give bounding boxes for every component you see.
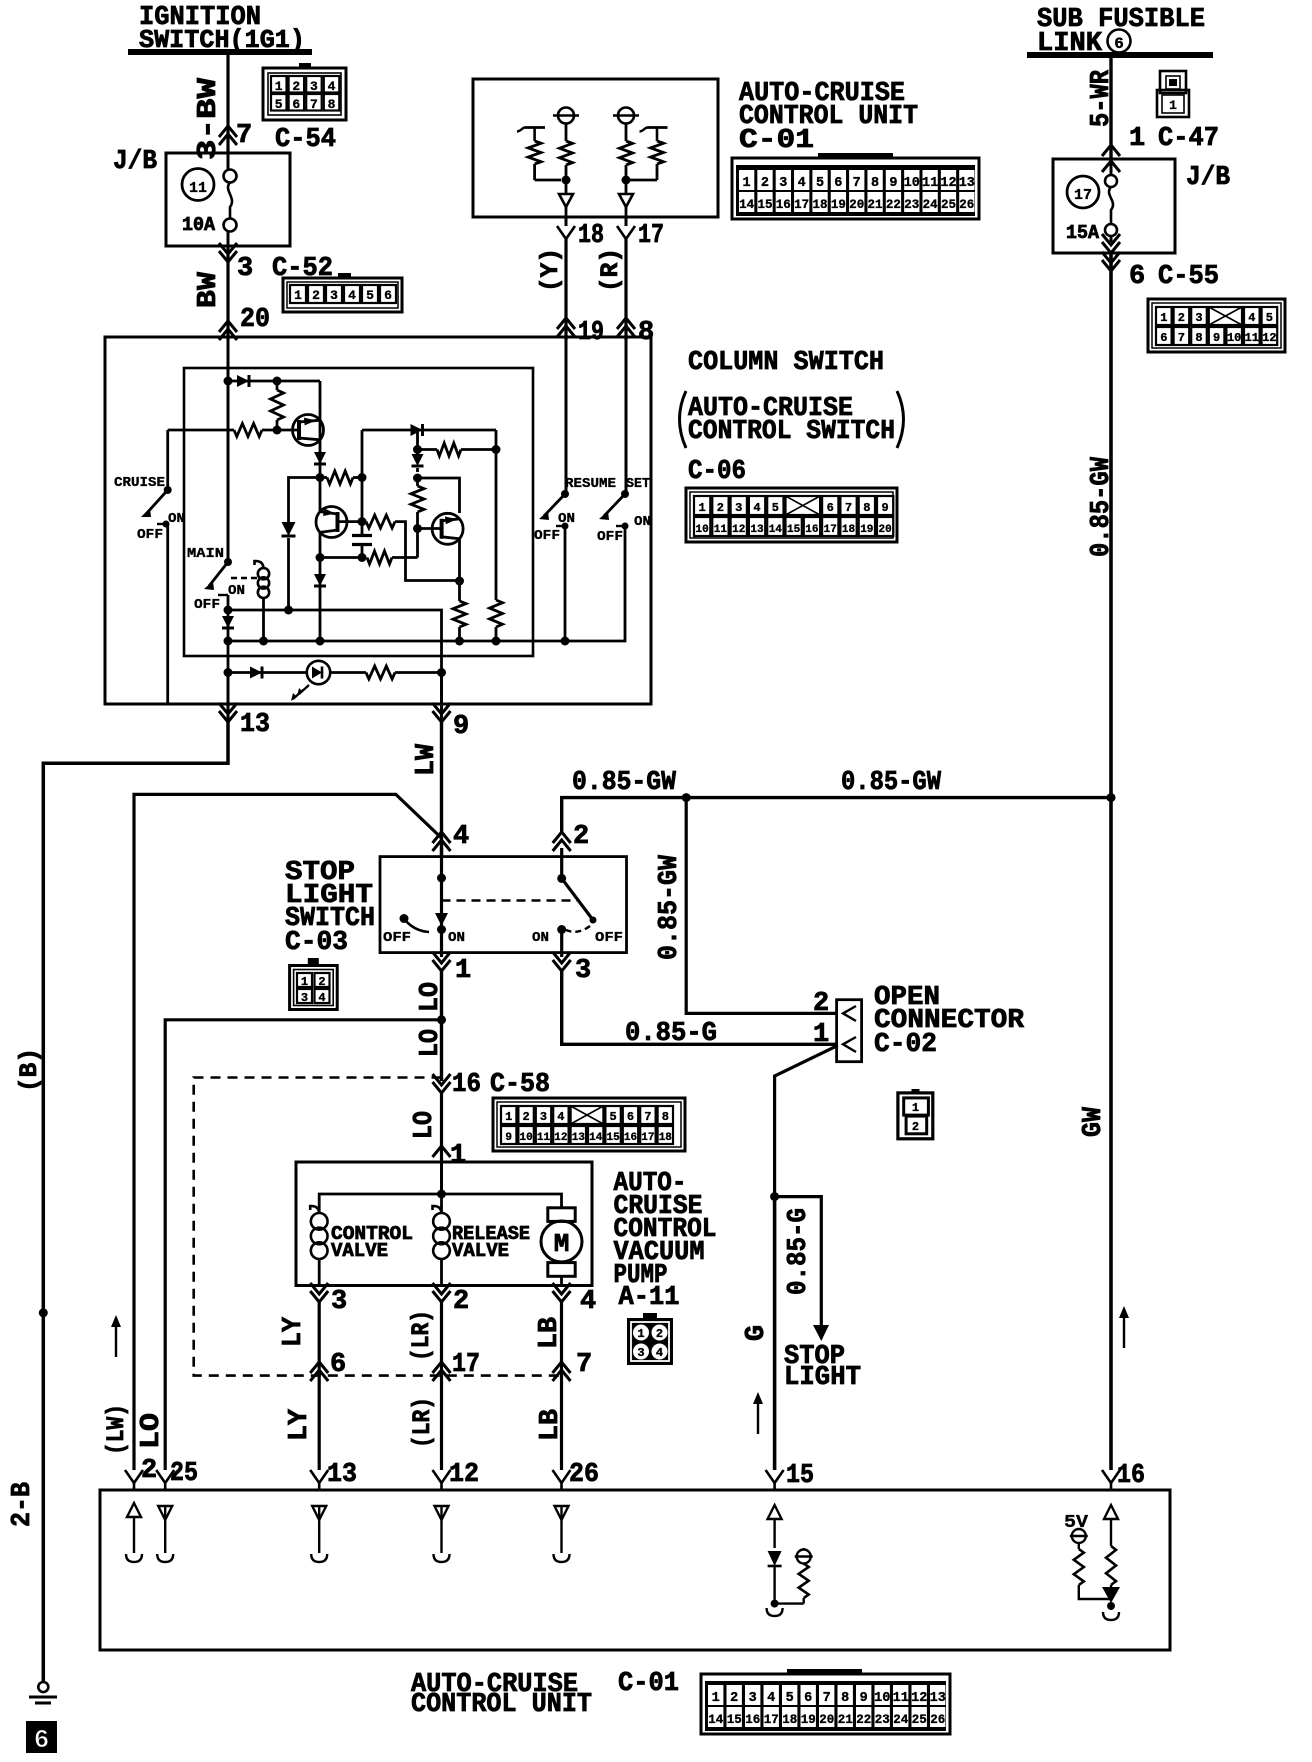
svg-text:4: 4: [453, 822, 469, 852]
capacitor C1: [352, 534, 372, 537]
svg-text:2: 2: [761, 176, 769, 191]
node junction R5 left: [413, 445, 422, 454]
pin 7 chevrons on dashed boundary: [553, 1362, 571, 1373]
connector C-02 icon: [898, 1093, 933, 1139]
open connector pin 1 chevron: [843, 1037, 856, 1052]
svg-text:OFF: OFF: [194, 597, 220, 613]
node junction 0.85-GW branch down: [682, 793, 691, 802]
bottom rail wire inside inner box: [228, 526, 625, 641]
column switch outer box: [105, 337, 651, 704]
svg-text:0.85-GW: 0.85-GW: [655, 854, 685, 960]
svg-text:13: 13: [327, 1460, 357, 1490]
svg-text:0.85-GW: 0.85-GW: [1087, 456, 1117, 557]
diode D4: [411, 424, 423, 436]
pin 13 connector chevrons: [219, 703, 237, 714]
svg-text:1: 1: [450, 1141, 466, 1171]
open connector pin 2 chevron: [843, 1006, 856, 1021]
svg-text:7: 7: [845, 501, 852, 515]
output pin 26 internal arrow: [555, 1506, 569, 1520]
wire T3 emitter down: [458, 538, 461, 601]
svg-text:(Y): (Y): [536, 248, 565, 292]
svg-text:SET: SET: [626, 476, 650, 492]
svg-text:OFF: OFF: [534, 528, 560, 544]
svg-text:3: 3: [237, 254, 253, 284]
svg-text:0.85-GW: 0.85-GW: [572, 768, 677, 798]
wire stub D4 to R5 row: [416, 430, 419, 450]
SET switch wire from pin 8: [625, 340, 628, 494]
svg-text:11: 11: [189, 180, 207, 197]
page marker 6 black box: [26, 1721, 57, 1753]
svg-text:8: 8: [662, 1110, 669, 1124]
svg-text:3: 3: [310, 79, 318, 94]
svg-text:19: 19: [860, 524, 873, 536]
pin 26 Y connector: [553, 1470, 571, 1483]
transistor T1: [293, 415, 324, 446]
svg-text:C-01: C-01: [618, 1669, 679, 1699]
connector C-54 icon: [263, 68, 346, 120]
fuse number 11 circle: [182, 169, 214, 201]
svg-text:26: 26: [569, 1460, 599, 1490]
pin 2 Y connector: [125, 1470, 143, 1483]
wire W610 horizontal: [228, 610, 442, 673]
wire pin9 down from LED row: [440, 673, 443, 726]
svg-text:21: 21: [868, 198, 883, 212]
direction arrow on G wire: [757, 1402, 759, 1434]
svg-text:7: 7: [823, 1691, 831, 1706]
svg-text:16: 16: [745, 1713, 760, 1727]
wire pin13 to ground bus (B): [43, 722, 228, 1683]
svg-text:0.85-G: 0.85-G: [625, 1019, 717, 1049]
pin 3 connector chevrons below switch: [553, 952, 571, 963]
svg-text:A-11: A-11: [619, 1283, 680, 1313]
svg-text:(LR): (LR): [408, 1397, 437, 1448]
svg-text:2: 2: [656, 1327, 663, 1341]
svg-text:2: 2: [522, 1110, 529, 1124]
svg-text:VALVE: VALVE: [452, 1240, 509, 1262]
node junction T3 emitter / R4: [455, 577, 464, 586]
svg-text:17: 17: [452, 1350, 480, 1380]
svg-text:6: 6: [1160, 331, 1167, 345]
svg-text:2: 2: [1178, 311, 1185, 325]
diode D7 below MAIN switch: [222, 616, 234, 628]
svg-text:LO: LO: [410, 1111, 440, 1139]
wire (Y) pin18 to column switch pin 19: [564, 239, 567, 340]
connector C-01 icon (26-pin) top: [732, 158, 979, 219]
diode D6 below T2: [314, 574, 326, 586]
pin 8 connector chevrons: [617, 318, 635, 329]
CRUISE switch branch wire: [166, 430, 169, 490]
node junction rail-MAIN: [224, 637, 233, 646]
svg-text:23: 23: [875, 1713, 890, 1727]
svg-text:1: 1: [275, 79, 283, 94]
svg-text:4: 4: [767, 1691, 775, 1706]
node junction pin16 internal: [1107, 1602, 1115, 1610]
pin 9 connector chevrons: [433, 703, 451, 714]
svg-text:C-58: C-58: [490, 1070, 550, 1100]
node junction G wire stop light branch: [770, 1192, 779, 1201]
wire LB below pump: [560, 1302, 563, 1470]
svg-text:20: 20: [878, 524, 891, 536]
svg-text:2: 2: [318, 975, 325, 989]
node junction LED row right: [437, 668, 446, 677]
svg-text:12: 12: [732, 524, 745, 536]
node junction T3 base: [413, 524, 422, 533]
svg-text:22: 22: [886, 198, 901, 212]
wire 0.85-G diagonal to G wire: [775, 1045, 838, 1196]
svg-text:6: 6: [804, 1691, 812, 1706]
connector C-55 icon: [1148, 299, 1285, 352]
branch wire (LW) to control unit pin 2: [134, 794, 442, 1470]
LED lamp: [307, 661, 330, 684]
wire 0.85-GW branch down to open connector pin 2: [686, 798, 838, 1014]
svg-text:4: 4: [1248, 311, 1255, 325]
stop light feed arrow: [813, 1325, 829, 1341]
wire (R) pin17 to column switch pin 8: [624, 239, 627, 340]
pullup sensor circle pin15: [797, 1550, 811, 1564]
svg-text:15: 15: [757, 198, 772, 212]
svg-text:1: 1: [813, 1020, 829, 1050]
svg-text:12: 12: [554, 1132, 567, 1144]
svg-text:3-BW: 3-BW: [194, 77, 224, 160]
svg-text:16: 16: [805, 524, 818, 536]
SET switch pivot and arm: [621, 490, 629, 498]
MAIN contact wire down: [227, 595, 230, 641]
pin 15 Y connector: [766, 1470, 784, 1483]
node junction 0.85-GW at GW wire: [1107, 793, 1116, 802]
svg-text:4: 4: [328, 79, 336, 94]
svg-text:9: 9: [505, 1132, 512, 1144]
fuse element 10A: [224, 170, 237, 183]
wire BW from J/B to column switch: [226, 246, 229, 340]
svg-text:25: 25: [912, 1713, 927, 1727]
control valve coil: [311, 1213, 328, 1230]
svg-text:15A: 15A: [1066, 222, 1100, 244]
svg-text:12: 12: [911, 1691, 927, 1706]
svg-text:CONTROL UNIT: CONTROL UNIT: [411, 1690, 592, 1720]
RESUME switch wire from pin 19: [565, 340, 568, 494]
svg-text:C-47: C-47: [1158, 124, 1219, 154]
svg-text:4: 4: [656, 1346, 663, 1360]
resistor R5 horizontal: [437, 443, 461, 456]
junction node pin 17: [622, 176, 631, 185]
svg-text:OFF: OFF: [383, 930, 411, 946]
svg-text:3: 3: [301, 991, 308, 1005]
pump pin 2 chevrons: [433, 1283, 451, 1294]
svg-text:8: 8: [871, 176, 879, 191]
svg-text:10A: 10A: [182, 214, 216, 236]
svg-text:RESUME: RESUME: [565, 476, 616, 492]
svg-text:9: 9: [889, 176, 897, 191]
svg-text:5: 5: [275, 97, 283, 112]
direction arrow on LW wire: [115, 1325, 117, 1357]
resistor R7 vertical: [411, 486, 424, 512]
svg-text:18: 18: [782, 1713, 797, 1727]
pin 7 in-line connector chevrons: [219, 126, 237, 137]
pin 19 connector chevrons: [557, 318, 575, 329]
svg-text:M: M: [554, 1229, 570, 1259]
svg-text:15: 15: [786, 1461, 814, 1491]
svg-text:LW: LW: [412, 743, 442, 776]
svg-text:C-55: C-55: [1158, 262, 1219, 292]
svg-text:C-06: C-06: [688, 457, 746, 487]
svg-text:3: 3: [540, 1110, 547, 1124]
svg-text:25: 25: [170, 1459, 198, 1489]
release valve coil: [440, 1194, 443, 1214]
resistor pin15 branch: [799, 1564, 809, 1599]
svg-text:G: G: [742, 1325, 772, 1341]
LED light arrows: [299, 685, 309, 694]
svg-text:4: 4: [318, 991, 325, 1005]
resistor pin 17: [625, 124, 628, 142]
node junction R3 right: [358, 473, 367, 482]
pole2 contact node: [557, 925, 566, 934]
resistor R3 horizontal: [327, 471, 353, 484]
node junction LO branch: [437, 1015, 446, 1024]
svg-text:LIGHT: LIGHT: [784, 1363, 861, 1393]
svg-text:4: 4: [580, 1287, 596, 1317]
node junction rail-R9: [492, 637, 501, 646]
junction node pin 18: [562, 176, 571, 185]
svg-text:5: 5: [772, 501, 779, 515]
svg-text:19: 19: [578, 318, 604, 348]
subtitle auto-cruise control switch with parentheses: [680, 391, 687, 448]
diode in pin15 input: [768, 1551, 782, 1566]
svg-text:9: 9: [860, 1691, 868, 1706]
svg-text:(LR): (LR): [407, 1310, 436, 1361]
MAIN contact tick: [218, 594, 228, 596]
arrow to pin 18 (open triangle): [559, 194, 573, 207]
resistor R10 in LED row: [330, 671, 366, 674]
svg-text:OFF: OFF: [137, 527, 163, 543]
wire LW from pin9 to stop light switch: [440, 722, 443, 857]
svg-text:VALVE: VALVE: [331, 1240, 388, 1262]
wire corner to D3 branch: [289, 478, 321, 523]
fuse number 17 circle: [1067, 176, 1099, 208]
connector A-11 dashed boundary: [194, 1078, 562, 1376]
svg-text:3: 3: [735, 501, 742, 515]
svg-text:22: 22: [856, 1713, 871, 1727]
svg-text:18: 18: [659, 1132, 673, 1144]
svg-text:(R): (R): [596, 248, 625, 292]
node junction T2 chain at R6 row: [316, 553, 325, 562]
svg-text:1: 1: [912, 1101, 919, 1115]
svg-text:6: 6: [1114, 35, 1124, 53]
svg-text:7: 7: [310, 97, 318, 112]
transistor T3: [432, 513, 463, 544]
svg-text:BW: BW: [194, 271, 224, 308]
svg-text:17: 17: [764, 1713, 779, 1727]
svg-text:10: 10: [874, 1691, 890, 1706]
branch wire LO to control unit pin 25: [165, 1020, 441, 1470]
svg-text:9: 9: [1213, 331, 1220, 345]
wire 0.85-GW from pin 2 of stop light switch: [562, 798, 1111, 832]
svg-text:26: 26: [959, 198, 974, 212]
svg-text:5: 5: [1266, 311, 1273, 325]
svg-text:1: 1: [455, 956, 471, 986]
pin 1 single chevron at pump: [433, 1146, 451, 1157]
svg-text:GW: GW: [1079, 1106, 1109, 1137]
mechanical dashed link between poles: [442, 899, 578, 902]
svg-text:5: 5: [786, 1691, 794, 1706]
diode D1 top left: [228, 380, 277, 383]
input pin 15 internal circuit: [768, 1505, 782, 1519]
direction arrow on GW wire: [1123, 1316, 1125, 1348]
svg-text:1: 1: [1129, 124, 1145, 154]
svg-text:8: 8: [863, 501, 870, 515]
svg-text:LY: LY: [285, 1408, 315, 1441]
svg-text:17: 17: [794, 198, 809, 212]
branch wire to stop light: [775, 1197, 822, 1327]
svg-text:C-54: C-54: [275, 125, 336, 155]
svg-text:LO: LO: [416, 982, 446, 1012]
node junction D2 bottom: [316, 473, 325, 482]
svg-text:6: 6: [292, 97, 300, 112]
svg-text:LO: LO: [137, 1413, 167, 1449]
output pin 13 internal arrow: [312, 1506, 326, 1520]
svg-text:10: 10: [1227, 331, 1241, 345]
svg-text:13: 13: [240, 710, 270, 740]
svg-text:(LW): (LW): [102, 1404, 131, 1455]
resistor R9 vertical: [490, 600, 503, 627]
svg-text:LY: LY: [279, 1316, 309, 1347]
node junction top of inner circuit: [224, 377, 233, 386]
svg-text:6: 6: [627, 1110, 634, 1124]
input pin 16 internal circuit: [1104, 1505, 1118, 1519]
pin 4 connector chevrons: [433, 832, 451, 843]
SET contact: [622, 523, 629, 530]
wire top horizontal W1 with D4: [362, 429, 496, 432]
svg-text:19: 19: [801, 1713, 816, 1727]
resistor R2 base of T1: [234, 424, 262, 437]
MAIN switch pivot and arm: [224, 558, 232, 566]
pin 1 connector chevrons below switch: [433, 952, 451, 963]
5V supply circle: [1072, 1529, 1086, 1543]
node junction MAIN to LED-row branch W610: [224, 606, 233, 615]
pump pin 3 chevrons: [310, 1283, 328, 1294]
svg-text:2: 2: [813, 989, 829, 1019]
svg-text:OFF: OFF: [595, 930, 623, 946]
svg-text:14: 14: [589, 1132, 603, 1144]
svg-text:4: 4: [557, 1110, 564, 1124]
svg-text:2: 2: [717, 501, 724, 515]
wire R6 row left segment: [320, 556, 362, 559]
svg-text:OFF: OFF: [597, 529, 623, 545]
svg-text:ON: ON: [168, 511, 185, 527]
svg-text:0.85-G: 0.85-G: [784, 1208, 814, 1295]
svg-text:7: 7: [644, 1110, 651, 1124]
svg-text:23: 23: [904, 198, 919, 212]
svg-text:15: 15: [727, 1713, 742, 1727]
svg-text:24: 24: [923, 198, 939, 212]
wire LY below pump: [318, 1302, 321, 1470]
svg-text:C-02: C-02: [874, 1030, 937, 1060]
svg-text:1: 1: [637, 1327, 644, 1341]
svg-text:11: 11: [537, 1132, 551, 1144]
svg-text:3: 3: [331, 1287, 347, 1317]
svg-text:14: 14: [769, 524, 783, 536]
open connector C-02 box: [837, 1000, 862, 1062]
pin 16 bottom Y connector: [1102, 1470, 1120, 1483]
svg-text:5: 5: [609, 1110, 616, 1124]
svg-text:26: 26: [930, 1713, 945, 1727]
svg-text:MAIN: MAIN: [187, 546, 224, 562]
svg-text:2: 2: [573, 822, 589, 852]
svg-text:10: 10: [904, 176, 920, 191]
wire right vertical x496: [495, 430, 498, 600]
svg-text:1: 1: [712, 1691, 720, 1706]
pin 3 connector chevrons below J/B: [219, 243, 237, 254]
svg-text:J/B: J/B: [1186, 163, 1230, 193]
svg-text:C-01: C-01: [739, 126, 814, 156]
svg-text:J/B: J/B: [113, 147, 157, 177]
diode D5: [412, 454, 424, 466]
svg-text:3: 3: [637, 1346, 644, 1360]
svg-text:6: 6: [827, 501, 834, 515]
input pin 2 internal arrow: [127, 1503, 141, 1517]
svg-text:18: 18: [842, 524, 856, 536]
connector C-58 icon: [493, 1098, 685, 1151]
svg-text:6: 6: [1129, 262, 1145, 292]
stop light switch pole 1 wire and node: [440, 848, 443, 957]
svg-text:2: 2: [730, 1691, 738, 1706]
fuse element 15A: [1105, 175, 1117, 187]
pin 2 connector chevrons: [553, 832, 571, 843]
svg-text:CRUISE: CRUISE: [114, 475, 165, 491]
fusible link number 6 circle: [1108, 30, 1131, 53]
resistor pin16 branch right: [1106, 1546, 1116, 1585]
resistor R6 horizontal: [367, 551, 392, 564]
CRUISE wire down to box bottom: [166, 524, 169, 704]
svg-text:10: 10: [519, 1132, 532, 1144]
svg-text:5: 5: [366, 288, 374, 303]
node junction rail-D6: [316, 637, 325, 646]
svg-text:3: 3: [749, 1691, 757, 1706]
resistor in pin18 branch left: [528, 141, 541, 164]
svg-text:6: 6: [330, 1350, 346, 1380]
pin 1 in-line connector chevrons: [1102, 145, 1120, 156]
svg-text:4: 4: [348, 288, 356, 303]
auto-cruise control unit internal box (pins 18/17): [473, 79, 718, 217]
svg-text:8: 8: [328, 97, 336, 112]
svg-text:6: 6: [384, 288, 392, 303]
pole1 ON contact arrow: [435, 913, 448, 926]
svg-text:7: 7: [236, 121, 252, 151]
output pin 12 internal arrow: [435, 1506, 449, 1520]
resistor in pin17 branch right: [651, 141, 664, 164]
svg-text:ON: ON: [634, 514, 651, 530]
node junction rail-coil: [259, 637, 268, 646]
node junction R1 bottom / T1 base: [273, 426, 282, 435]
transistor T2 (mirrored): [316, 507, 347, 538]
svg-text:1: 1: [1160, 311, 1167, 325]
stop light switch pole 1 pivot and arm (OFF position): [400, 914, 409, 923]
svg-text:18: 18: [578, 221, 604, 251]
svg-text:19: 19: [831, 198, 846, 212]
svg-text:1: 1: [505, 1110, 512, 1124]
svg-text:CONTROL SWITCH: CONTROL SWITCH: [688, 417, 895, 447]
wire pin13 down from LED row: [227, 673, 230, 726]
svg-text:3: 3: [330, 288, 338, 303]
connector C-47 icon: [1160, 71, 1186, 93]
svg-text:12: 12: [449, 1460, 479, 1490]
svg-text:4: 4: [753, 501, 760, 515]
resistor R8 vertical: [453, 601, 466, 627]
node junction R6 left: [358, 553, 367, 562]
relay coil of MAIN switch: [258, 568, 269, 579]
output pin 25 internal arrow: [158, 1506, 172, 1520]
node junction T2 base wire: [358, 517, 367, 526]
svg-text:6: 6: [834, 176, 842, 191]
